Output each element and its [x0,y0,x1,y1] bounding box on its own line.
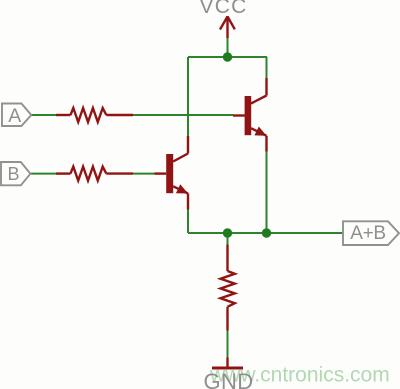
svg-text:GND: GND [203,369,253,389]
svg-text:B: B [7,164,19,184]
svg-text:A+B: A+B [350,223,386,244]
svg-text:VCC: VCC [200,0,248,18]
svg-text:A: A [8,105,21,127]
